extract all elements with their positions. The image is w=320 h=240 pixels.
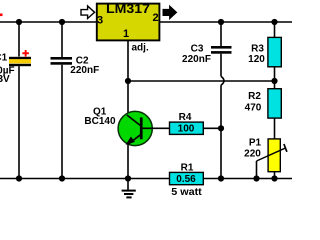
wire: C1 lower lead [18, 66, 20, 178]
svg-text:C1: C1 [0, 52, 8, 63]
resistor R1 (in bottom rail) [170, 172, 204, 184]
svg-text:220nF: 220nF [70, 65, 99, 76]
svg-text:R1: R1 [181, 163, 194, 174]
potentiometer P1 body [268, 139, 280, 172]
svg-text:R2: R2 [248, 91, 261, 102]
resistor R3 [268, 37, 281, 66]
svg-text:220nF: 220nF [182, 54, 211, 65]
label P1 [249, 138, 262, 149]
junction dot C1 top [16, 19, 22, 25]
svg-text:220: 220 [244, 148, 261, 159]
wire: C3 lead to hop [220, 54, 222, 77]
wire: top input rail [0, 21, 96, 23]
svg-text:LM317: LM317 [106, 1, 150, 16]
pin 1 label [123, 28, 129, 40]
junction dot C2 top [59, 19, 65, 25]
junction dot P1 bottom [271, 175, 277, 181]
svg-text:120: 120 [248, 54, 265, 65]
junction dot R3 top [271, 19, 277, 25]
wire: C3 upper lead [220, 22, 222, 46]
op-amp U1 LM317 regulator body [97, 4, 160, 41]
svg-text:3: 3 [97, 15, 103, 27]
svg-text:adj.: adj. [132, 42, 149, 53]
value label 100 [178, 124, 195, 135]
wire: P1 bottom lead [274, 172, 276, 179]
wire: Q1 emitter lead [127, 145, 129, 179]
value label 220 [244, 148, 261, 159]
label R2 [248, 91, 261, 102]
wire: sense line down to R1 [220, 128, 222, 178]
label R3 [251, 43, 264, 54]
node input polarity mark (red) [0, 14, 3, 17]
wire: R3 lower lead / R2 upper lead [274, 67, 276, 89]
svg-text:470: 470 [245, 103, 262, 114]
wire: C2 lower lead [61, 65, 63, 179]
svg-text:0.56: 0.56 [176, 174, 196, 185]
wire: R2 lower lead to P1 [274, 118, 276, 139]
wire: top output rail [160, 21, 292, 23]
label LM317 [106, 1, 150, 16]
capacitor C2 [51, 57, 73, 65]
wire: LM317 pin1 (adj) lead [127, 40, 129, 81]
svg-text:2: 2 [152, 12, 158, 24]
wire: R4 right lead [203, 127, 221, 129]
input arrow (open) [81, 6, 95, 19]
junction dot R3/R2 node [271, 78, 277, 84]
wire: P1 wiper lead down [256, 161, 258, 179]
wire: C3 lead below hop down to R4 node [220, 85, 222, 128]
P1 wiper arrow [257, 144, 287, 161]
output arrow (filled) [163, 6, 177, 19]
junction dot C1 bottom [16, 175, 22, 181]
svg-text:R3: R3 [251, 43, 264, 54]
value label 220nF (C2) [70, 65, 99, 76]
svg-text:BC140: BC140 [84, 116, 116, 127]
value label 0.56 [176, 174, 196, 185]
label Q1 [93, 107, 107, 118]
svg-text:R4: R4 [179, 112, 192, 123]
junction dot adj node [125, 78, 131, 84]
svg-text:5 watt: 5 watt [171, 187, 202, 198]
ground symbol [122, 179, 136, 198]
label C2 [76, 55, 89, 66]
capacitor C1 (electrolytic) [9, 57, 31, 66]
svg-text:100: 100 [178, 124, 195, 135]
svg-text:1: 1 [123, 28, 129, 40]
label adj. [132, 42, 149, 53]
value label 470 [245, 103, 262, 114]
value label 220nF (C3) [182, 54, 211, 65]
value label 1000µF [0, 66, 15, 77]
junction dot C2 bottom [59, 175, 65, 181]
polarity + (red) of C1 [22, 50, 29, 57]
label C1 [0, 52, 8, 63]
junction dot wiper bottom [253, 175, 259, 181]
value label BC140 [84, 116, 116, 127]
capacitor C3 [211, 46, 232, 54]
transistor Q1 BC140 [118, 111, 152, 145]
value label 5 watt [171, 187, 202, 198]
pin 2 label [152, 12, 158, 24]
wire hop (no connection) over adj line [221, 76, 224, 85]
wire: Q1 base lead to R4 [142, 127, 170, 129]
label R4 [179, 112, 192, 123]
label C3 [191, 44, 204, 55]
value label 63V [0, 74, 10, 85]
pin 3 label [97, 15, 103, 27]
wire: Q1 collector lead from adj node [127, 81, 129, 115]
junction dot R1/sense node [218, 175, 224, 181]
wire: C2 upper lead [61, 22, 63, 57]
wire: C1 upper lead [18, 22, 20, 57]
value label 120 [248, 54, 265, 65]
junction dot C3 top [218, 19, 224, 25]
wire: adj horizontal line to divider [128, 80, 275, 82]
wire: R3 upper lead [274, 22, 276, 37]
resistor R4 [170, 122, 204, 134]
svg-text:63V: 63V [0, 74, 10, 85]
label R1 [181, 163, 194, 174]
junction dot emitter/ground node [125, 175, 131, 181]
wire: bottom ground rail [0, 178, 292, 180]
svg-text:P1: P1 [249, 138, 262, 149]
junction dot R4/C3 node [218, 125, 224, 131]
resistor R2 [268, 89, 281, 118]
